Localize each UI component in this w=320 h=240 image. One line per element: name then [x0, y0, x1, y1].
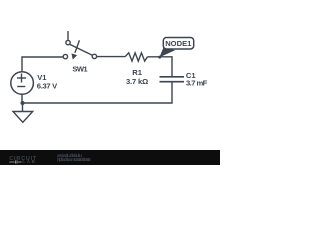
svg-text:3.7 mF: 3.7 mF — [186, 79, 208, 88]
svg-text:http://circuitlab.com/c4543d3a: http://circuitlab.com/c4543d3ab63ar — [57, 157, 91, 162]
svg-text:R1: R1 — [132, 68, 142, 77]
svg-text:LAB: LAB — [22, 159, 35, 164]
svg-text:6.37 V: 6.37 V — [37, 82, 58, 91]
svg-text:3.7 kΩ: 3.7 kΩ — [126, 77, 148, 86]
svg-text:NODE1: NODE1 — [165, 39, 192, 48]
svg-text:SW1: SW1 — [72, 64, 88, 73]
